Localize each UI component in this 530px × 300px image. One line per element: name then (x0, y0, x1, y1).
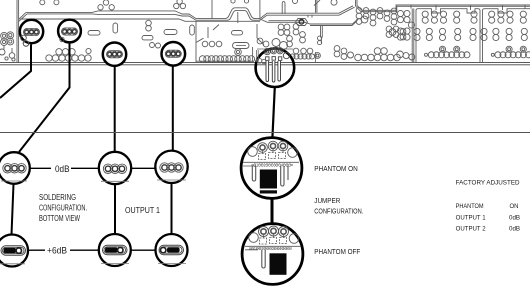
wire 0dB row (30, 167, 155, 169)
+6dB detail circle right (156, 234, 188, 266)
svg-text:+6dB: +6dB (47, 246, 67, 256)
board left edge (17, 0, 27, 62)
wire phantom on to off (271, 199, 274, 225)
svg-text:¤Ɵ1ƟƟ2ƟƟƟ3ƟƟ4ƟƟƟ¤: ¤Ɵ1ƟƟ2ƟƟƟ3ƟƟ4ƟƟƟ¤ (249, 246, 292, 251)
right cluster of pairs (356, 8, 362, 14)
svg-text:CONFIGURATION.: CONFIGURATION. (314, 206, 363, 215)
svg-text:¤Ɵ1ƟƟ2ƟƟƟ3ƟƟ4ƟƟƟ¤: ¤Ɵ1ƟƟ2ƟƟƟ3ƟƟ4ƟƟƟ¤ (252, 162, 294, 167)
svg-text:ON: ON (510, 203, 519, 210)
right boxes region (397, 5, 530, 62)
svg-text:0dB: 0dB (509, 226, 521, 233)
leader wire from J1 (0, 45, 31, 99)
top trace loop (212, 0, 317, 23)
phantom header pads and pins (257, 48, 294, 82)
svg-text:PHANTOM ON: PHANTOM ON (314, 164, 358, 173)
svg-text:OUTPUT 1: OUTPUT 1 (125, 206, 160, 215)
tile3 pads (257, 8, 406, 63)
section divider line (0, 132, 530, 134)
svg-text:BOTTOM VIEW: BOTTOM VIEW (39, 214, 80, 223)
jumper footprint in circle J2 (62, 28, 78, 35)
0dB detail circle left (0, 152, 30, 184)
+6dB detail circle left (0, 235, 28, 267)
tile1 component pads (21, 23, 118, 61)
jumper footprint in circle J4 (165, 50, 181, 57)
leader wire from phantom header (272, 87, 274, 138)
svg-text:JUMPER: JUMPER (314, 196, 340, 205)
highlight circle J2 (58, 20, 81, 43)
left col pads (397, 10, 403, 16)
svg-text:PHANTOM: PHANTOM (456, 203, 484, 210)
pcb top-view background (0, 0, 530, 65)
phantom-on detail circle (241, 138, 302, 199)
left outside pads (0, 32, 15, 61)
bottom rows (293, 48, 299, 54)
svg-text:FACTORY ADJUSTED: FACTORY ADJUSTED (456, 180, 520, 187)
svg-text:OUTPUT 1: OUTPUT 1 (456, 215, 486, 222)
hexagon pad component (296, 19, 308, 26)
tile3 traces (257, 0, 320, 45)
wire left column (12, 184, 14, 235)
jumper block off (270, 253, 287, 274)
svg-text:OUTPUT 2: OUTPUT 2 (456, 226, 486, 233)
wire right column (171, 183, 173, 234)
trace B lower (269, 21, 323, 44)
wire +6dB row (28, 249, 155, 251)
leader wire from J2 (19, 43, 70, 152)
highlight circle J1 (20, 20, 43, 43)
jumper footprint in circle J1 (24, 28, 40, 35)
right top trace (356, 0, 530, 12)
board bottom edge double line (0, 63, 530, 65)
svg-text:SOLDERING: SOLDERING (39, 193, 76, 202)
highlight circle J4 (162, 42, 186, 66)
pads above top edge (40, 0, 337, 10)
0dB detail circle middle (99, 152, 131, 184)
box2 pads (481, 11, 530, 58)
leader wire from J4 (172, 66, 174, 150)
tile2 component pads (142, 20, 255, 62)
svg-text:PHANTOM OFF: PHANTOM OFF (314, 247, 360, 256)
leader wire from J3 (114, 66, 116, 152)
svg-text:0dB: 0dB (509, 215, 521, 222)
board outline top traces (26, 6, 353, 19)
wire middle column (114, 184, 116, 234)
jumper footprint in circle J3 (107, 51, 123, 58)
highlight circle phantom header (256, 48, 295, 87)
box1 pads (414, 11, 477, 58)
0dB detail circle right (155, 151, 187, 183)
highlight circle J3 (103, 43, 126, 66)
+6dB detail circle middle (99, 234, 131, 266)
phantom-off detail circle (242, 224, 303, 285)
jumper block on (260, 170, 277, 189)
pyramid cluster left (46, 55, 52, 61)
tile2 inner box outline (196, 21, 253, 62)
svg-text:CONFIGURATION.: CONFIGURATION. (39, 204, 87, 213)
svg-text:0dB: 0dB (55, 164, 70, 174)
